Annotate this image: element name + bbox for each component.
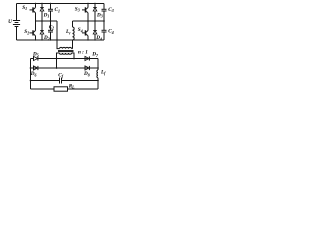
wire node A to transformer (57, 21, 60, 49)
svg-text:U: U (8, 19, 12, 25)
svg-text:D2: D2 (43, 35, 50, 41)
diode D6 (30, 66, 38, 77)
junction dots secondary taps (56, 58, 58, 60)
diode D4 (93, 21, 102, 41)
output rail with Cf (31, 80, 99, 82)
diode D1 (40, 4, 49, 22)
transformer secondary (60, 53, 72, 54)
svg-text:S3: S3 (75, 7, 80, 13)
diode D8 (83, 66, 90, 77)
wire bottom bridge rail (17, 39, 105, 41)
transformer core (58, 50, 74, 52)
node A rail (36, 20, 58, 22)
capacitor C3 (102, 4, 114, 22)
bottom rail with RL (31, 88, 99, 90)
wire secondary right lead (72, 53, 75, 59)
transformer T primary (60, 47, 72, 48)
capacitor Cf (58, 73, 63, 84)
svg-text:C4: C4 (108, 29, 113, 35)
svg-text:D3: D3 (96, 13, 103, 19)
right bus (97, 59, 99, 71)
svg-text:S2: S2 (24, 29, 29, 35)
capacitor C1 (48, 4, 60, 22)
transistor S1 (22, 4, 35, 22)
diode D7 (85, 52, 99, 61)
rectifier rail top (31, 58, 99, 60)
svg-text:D5: D5 (32, 51, 39, 57)
battery U (8, 4, 20, 41)
svg-text:D1: D1 (43, 13, 50, 19)
diode D5 (32, 51, 39, 60)
inductor Lf (97, 70, 106, 90)
svg-text:D8: D8 (83, 71, 90, 77)
node B junction dots (87, 20, 89, 22)
wire secondary left lead (57, 53, 60, 68)
svg-text:C2: C2 (49, 24, 54, 30)
svg-text:S4: S4 (78, 27, 83, 33)
capacitor C2 (48, 21, 54, 40)
node A junction dots (41, 20, 43, 22)
svg-text:D7: D7 (91, 52, 99, 58)
svg-text:n : 1: n : 1 (78, 50, 88, 56)
svg-text:C1: C1 (55, 7, 60, 13)
svg-text:Lr: Lr (65, 29, 71, 35)
svg-text:Lf: Lf (100, 70, 106, 76)
diode D2 (40, 21, 50, 41)
wire top rail (17, 3, 105, 5)
svg-text:Cf: Cf (58, 73, 63, 79)
inductor Lr (65, 21, 74, 49)
left bus (30, 59, 32, 90)
rectifier rail middle (31, 67, 99, 69)
svg-text:D4: D4 (95, 35, 102, 41)
svg-text:C3: C3 (108, 7, 113, 13)
svg-text:S1: S1 (22, 5, 27, 11)
resistor RL (54, 84, 75, 92)
junction dots rails (35, 3, 36, 4)
svg-text:RL: RL (69, 84, 75, 90)
transistor S2 (24, 21, 35, 40)
node B rail (73, 20, 105, 22)
capacitor C4 (102, 21, 114, 40)
diode D3 (93, 4, 103, 22)
transistor S3 (75, 4, 88, 22)
transistor S4 (78, 21, 88, 40)
